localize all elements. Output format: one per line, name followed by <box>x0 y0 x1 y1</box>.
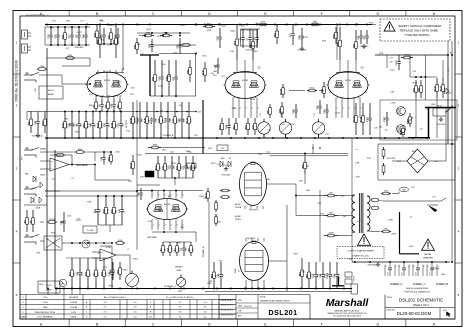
svg-text:ADAPT: ADAPT <box>48 93 55 96</box>
svg-text:R103: R103 <box>49 219 55 221</box>
column tick marks top <box>68 11 70 17</box>
svg-text:22n: 22n <box>162 64 165 66</box>
transistor TR2 <box>59 279 67 287</box>
wires right col to bus <box>415 98 417 138</box>
model cell DSL201 <box>257 295 259 319</box>
filter cap cluster rails <box>45 26 90 28</box>
resistor R35 <box>65 57 67 59</box>
footswitch jack FS1 <box>24 236 32 238</box>
capacitor C187 <box>386 112 388 118</box>
resistor R19 network <box>119 262 121 268</box>
svg-text:100n: 100n <box>39 284 44 286</box>
svg-text:PAGE 1 OF 2: PAGE 1 OF 2 <box>413 303 429 307</box>
svg-text:DATE: DATE <box>71 316 77 319</box>
svg-text:820R: 820R <box>40 174 45 176</box>
wire y58 left <box>47 57 90 59</box>
wire y243 comb E top <box>70 242 112 244</box>
comb B components <box>132 102 134 117</box>
wire right margin drop <box>451 41 453 262</box>
resistor small W4a <box>371 199 372 201</box>
resistor R18 R17 <box>115 242 117 244</box>
svg-text:4: 4 <box>252 108 253 110</box>
junction dots phase splitter <box>312 147 313 148</box>
capacitor C90 <box>151 39 153 45</box>
capacitor C19 <box>103 28 105 35</box>
svg-text:5: 5 <box>258 108 259 110</box>
svg-text:6: 6 <box>183 194 184 196</box>
svg-text:5: 5 <box>413 266 414 268</box>
svg-text:100n: 100n <box>162 149 167 151</box>
svg-text:47u: 47u <box>177 242 180 244</box>
resistor R83 <box>276 25 278 32</box>
capacitor C6 <box>78 27 80 35</box>
ground bus bottom second <box>205 291 352 293</box>
svg-text:CH2: CH2 <box>409 246 414 248</box>
svg-text:10K: 10K <box>294 24 298 26</box>
wire opamp to pot <box>129 255 131 274</box>
signal bus pair <box>145 153 348 155</box>
wire plate V8 <box>269 260 288 262</box>
safety warning box <box>380 19 450 41</box>
svg-text:MODEL: MODEL <box>260 297 266 299</box>
resistor W1 plate <box>324 195 328 197</box>
resistor R116 tall <box>207 188 209 192</box>
svg-text:OUTPUT: OUTPUT <box>126 119 128 128</box>
svg-text:R = (THROUGH PLATED): R = (THROUGH PLATED) <box>166 296 194 299</box>
dark ground blob <box>145 171 154 177</box>
resistor W12 <box>307 90 309 92</box>
resistor R36b <box>96 25 98 32</box>
svg-text:03/CA/99: 03/CA/99 <box>69 296 79 299</box>
resistor R31 <box>269 104 271 108</box>
svg-text:10K: 10K <box>217 221 221 223</box>
svg-text:3: 3 <box>165 194 166 196</box>
op-amp IC1A <box>100 249 116 261</box>
svg-text:ALL OTHER HOLES =: ALL OTHER HOLES = <box>104 296 127 299</box>
footswitch pad box <box>38 281 60 293</box>
zener ZD2 <box>383 163 385 166</box>
svg-text:2: 2 <box>159 194 160 196</box>
capacitor C70 box <box>187 163 196 168</box>
svg-text:I7: I7 <box>127 249 129 251</box>
connector header J1 <box>22 30 28 39</box>
svg-text:0.022: 0.022 <box>116 81 122 83</box>
screen supply bus right <box>352 261 450 263</box>
svg-text:SCREEN_D: SCREEN_D <box>390 284 403 286</box>
comb F power cathode <box>308 262 310 272</box>
column tick marks bottom <box>68 319 70 327</box>
svg-text:C107: C107 <box>367 116 369 122</box>
capacitor C20 <box>117 28 119 35</box>
V2 anode wires top <box>236 60 238 73</box>
V1 plate rail <box>96 72 124 74</box>
svg-text:100n: 100n <box>241 26 246 28</box>
capacitor C16 <box>50 27 52 35</box>
wire y196 across <box>45 195 137 197</box>
screen resistors R47 <box>301 258 303 270</box>
svg-text:220K: 220K <box>253 51 258 53</box>
svg-text:820R: 820R <box>412 82 417 84</box>
trim resistors VR12 <box>220 190 222 192</box>
resistor R90 <box>136 38 138 43</box>
svg-text:GROUND: GROUND <box>75 47 84 49</box>
wire V4 top pins rail <box>137 190 203 192</box>
resistors left col <box>26 210 28 218</box>
svg-text:50μ: 50μ <box>170 151 173 153</box>
clip diodes <box>220 161 223 167</box>
svg-text:C187: C187 <box>384 116 386 122</box>
svg-text:V5: V5 <box>229 158 231 160</box>
resistor R60 feedback <box>55 154 57 156</box>
svg-text:R118: R118 <box>165 117 167 123</box>
svg-text:VR72: VR72 <box>211 163 217 165</box>
svg-text:4: 4 <box>171 194 172 196</box>
send jack <box>24 149 32 151</box>
svg-text:VR44: VR44 <box>109 25 115 27</box>
svg-text:C41: C41 <box>60 220 63 225</box>
wire to CH2 <box>399 212 401 254</box>
svg-text:10K: 10K <box>230 51 234 53</box>
svg-text:75R: 75R <box>40 66 44 68</box>
transformer core <box>359 193 361 233</box>
svg-text:DSL201: DSL201 <box>268 308 297 317</box>
wire y44 under parts <box>97 43 118 45</box>
capacitor C34 <box>103 152 105 157</box>
resistor R66 screen feed <box>213 262 215 272</box>
svg-text:OUTPUT TRANSFORMER: OUTPUT TRANSFORMER <box>347 250 374 253</box>
svg-text:100n: 100n <box>186 151 191 153</box>
resistor R58 HT2 row <box>148 147 152 149</box>
svg-text:ADAPT: ADAPT <box>46 289 53 292</box>
vertical wire x352 <box>351 138 353 262</box>
input jack CH1 <box>24 74 32 76</box>
V3 anode wires top <box>339 60 341 73</box>
svg-text:R11B: R11B <box>130 163 132 169</box>
svg-text:3: 3 <box>109 96 110 98</box>
diode D17 <box>442 60 444 78</box>
potentiometer VR11 <box>176 277 185 286</box>
svg-text:TYPE AND RATING: TYPE AND RATING <box>405 33 430 37</box>
wire y45 mid <box>150 44 196 46</box>
screen cap group C94 <box>389 262 391 268</box>
box C-LOW <box>83 226 97 233</box>
svg-text:0.022: 0.022 <box>77 32 83 34</box>
cap cluster near V2 top <box>240 28 260 30</box>
svg-text:+: + <box>101 250 103 254</box>
svg-text:1475: 1475 <box>71 312 77 314</box>
svg-text:100n: 100n <box>213 65 218 67</box>
wire warning box to rail <box>447 41 449 55</box>
wire y96 bottom of comb T2 <box>150 95 196 97</box>
safety warning triangle <box>384 22 395 32</box>
svg-text:PRE-PRODUCTION: PRE-PRODUCTION <box>35 312 55 314</box>
capacitor C41 <box>63 212 65 221</box>
resistor R77 <box>258 24 260 26</box>
svg-text:MX-PC: MX-PC <box>48 90 55 92</box>
svg-text:470R: 470R <box>207 30 212 32</box>
svg-text:F: F <box>321 322 323 326</box>
svg-text:470K: 470K <box>108 208 110 213</box>
cap cluster box near V2 top <box>241 30 258 46</box>
drn date cells <box>235 295 237 319</box>
svg-text:1: 1 <box>153 225 154 227</box>
capacitor C10 <box>57 27 59 35</box>
comb D <box>162 242 164 246</box>
resistor R103 <box>47 221 49 223</box>
resistor W3 and GND link <box>381 193 383 195</box>
svg-text:0.022: 0.022 <box>146 29 152 31</box>
svg-text:3: 3 <box>165 225 166 227</box>
wires into revision table <box>47 289 49 295</box>
svg-text:1n: 1n <box>299 274 301 276</box>
screen rail A <box>27 111 196 113</box>
svg-text:10K: 10K <box>195 165 197 169</box>
svg-text:REPLACE ONLY WITH SAME: REPLACE ONLY WITH SAME <box>400 29 438 33</box>
model notes column <box>218 295 220 319</box>
svg-text:MX-PC: MX-PC <box>46 285 53 287</box>
svg-text:C 70: C 70 <box>190 166 194 168</box>
wire W2 feed <box>296 215 324 217</box>
svg-text:68K: 68K <box>441 274 445 276</box>
svg-text:ECO NUMBER: ECO NUMBER <box>38 317 53 319</box>
wire y191 to left jacks <box>45 190 137 192</box>
resistor R91 <box>415 80 417 86</box>
vertical wire x55 <box>54 150 56 289</box>
svg-text:R186: R186 <box>404 55 410 57</box>
svg-text:47K: 47K <box>160 165 162 169</box>
zener boxes right <box>345 272 352 277</box>
capacitor C42 <box>37 112 39 122</box>
capacitor C82 screen <box>220 262 222 274</box>
svg-text:LED: LED <box>98 272 100 277</box>
svg-text:C95: C95 <box>402 272 404 275</box>
svg-text:GND: GND <box>402 190 407 192</box>
svg-text:220K: 220K <box>388 220 393 222</box>
resistor W2 HT1 <box>324 215 328 217</box>
wire transformer to speaker jack <box>383 200 427 202</box>
svg-text:ECC83: ECC83 <box>345 80 351 82</box>
relay wire to BR1 <box>445 116 447 161</box>
svg-text:+: + <box>51 160 53 164</box>
resistor R12 <box>323 82 325 87</box>
svg-text:3: 3 <box>349 108 350 110</box>
svg-text:68K: 68K <box>183 118 185 122</box>
svg-text:W12: W12 <box>310 88 315 90</box>
bridge rectifier BR1 <box>407 149 428 173</box>
resistor 75R at input <box>37 68 39 70</box>
svg-text:3: 3 <box>246 108 247 110</box>
resistor R29 <box>281 102 283 107</box>
jack pad box MX-PC ADAPT <box>39 86 63 99</box>
svg-text:R10A: R10A <box>279 89 282 95</box>
svg-text:MWLB: MWLB <box>137 117 139 124</box>
svg-text:100K: 100K <box>137 154 142 156</box>
svg-text:SCREEN_D: SCREEN_D <box>164 286 176 288</box>
resistor R129 <box>442 78 444 85</box>
mosfet Q1 <box>397 107 406 116</box>
svg-text:C96: C96 <box>35 88 37 91</box>
transistor TR1 <box>82 240 90 248</box>
svg-text:1: 1 <box>153 194 154 196</box>
svg-text:R107: R107 <box>42 120 44 126</box>
svg-text:10K: 10K <box>137 44 141 46</box>
warning triangle transformer <box>358 234 371 245</box>
svg-text:1M: 1M <box>141 119 143 122</box>
capacitor C36 <box>295 104 297 110</box>
power supply enclosure <box>378 144 455 180</box>
wire segment W88 <box>181 44 183 46</box>
capacitor C64b <box>140 188 142 193</box>
wire x123 drop <box>122 25 124 71</box>
resistor R89 <box>160 35 163 37</box>
svg-text:MODEL NOTE 4: MODEL NOTE 4 <box>221 314 233 316</box>
bold supply traces <box>425 107 456 109</box>
mosfet Q2 <box>397 125 406 134</box>
V1 pin components bottom <box>95 96 97 100</box>
return jack <box>24 188 32 190</box>
svg-text:WASHER: WASHER <box>423 257 433 260</box>
svg-text:SEND: SEND <box>40 149 46 151</box>
svg-text:33K: 33K <box>75 131 79 133</box>
svg-text:C17: C17 <box>448 68 450 71</box>
svg-text:R129: R129 <box>440 85 442 91</box>
svg-text:C-LOW: C-LOW <box>87 230 94 232</box>
wire y53 to V2 <box>159 53 196 55</box>
output transformer T1 primary <box>352 195 355 202</box>
potentiometer VR4 <box>279 122 291 134</box>
wire input to grid <box>39 74 62 76</box>
svg-text:2: 2 <box>240 108 241 110</box>
svg-text:MODEL NOTE 3: MODEL NOTE 3 <box>221 310 233 312</box>
wire HT3 drop to power supply <box>447 55 449 144</box>
bold trace near R90 <box>140 54 159 56</box>
wire pots to bus <box>263 134 265 138</box>
svg-text:1n: 1n <box>410 217 412 219</box>
svg-text:ECC83: ECC83 <box>164 204 170 206</box>
svg-text:R125: R125 <box>434 85 436 91</box>
capacitor C78 <box>219 28 221 37</box>
potentiometer VR10 <box>126 274 139 287</box>
svg-text:47u: 47u <box>385 130 388 132</box>
svg-text:1: 1 <box>97 96 98 98</box>
svg-text:MODEL NOTE 2: MODEL NOTE 2 <box>221 305 233 307</box>
capacitor C17 <box>71 27 73 35</box>
svg-text:EL84: EL84 <box>235 269 237 273</box>
svg-text:2: 2 <box>159 225 160 227</box>
V2 pin wires bottom <box>232 98 234 119</box>
svg-text:VR64: VR64 <box>199 196 205 198</box>
output transformer label box <box>337 247 384 259</box>
wire return <box>45 190 60 192</box>
svg-text:R123: R123 <box>219 124 221 130</box>
zener pair below <box>33 176 36 182</box>
svg-text:C96: C96 <box>416 272 418 275</box>
capacitor C58 with ground <box>301 28 303 36</box>
wire y258 comb E join <box>70 257 112 259</box>
triode V3 ECC83 <box>328 72 368 99</box>
svg-text:1698: 1698 <box>43 307 49 309</box>
vertical wire x137 <box>136 100 138 250</box>
svg-text:DSL201 SCHEMATIC: DSL201 SCHEMATIC <box>399 298 444 303</box>
svg-text:SEE DL-6000EB.DGM: SEE DL-6000EB.DGM <box>406 288 428 290</box>
resistor R186b <box>402 126 404 128</box>
vertical wire x287 <box>286 205 288 292</box>
svg-text:5: 5 <box>399 266 400 268</box>
vertical wire x209 <box>208 202 210 289</box>
resistor R81 470R <box>203 26 206 28</box>
svg-text:VR75: VR75 <box>303 37 309 39</box>
svg-text:1710: 1710 <box>43 297 49 299</box>
svg-text:A200K: A200K <box>235 215 241 218</box>
zener ZD1 <box>383 147 385 150</box>
resistor R36 <box>64 27 66 33</box>
svg-text:R20B: R20B <box>130 118 132 124</box>
svg-text:22n: 22n <box>258 154 261 156</box>
svg-text:T12: T12 <box>260 113 262 116</box>
svg-text:METAL: METAL <box>424 253 432 256</box>
svg-text:R114: R114 <box>96 122 99 128</box>
wire y77 right col <box>410 76 437 78</box>
comb E led logic <box>71 258 73 270</box>
capacitor C66 <box>85 27 87 35</box>
wire send <box>40 151 55 153</box>
resistor R11B left <box>132 155 134 162</box>
comb A components <box>64 112 66 122</box>
svg-text:R186: R186 <box>400 129 402 135</box>
svg-text:47K: 47K <box>193 247 195 251</box>
svg-text:ScansByArtekMedia · 2: ScansByArtekMedia · 2 <box>26 13 50 16</box>
svg-text:ACR: ACR <box>201 70 204 75</box>
svg-text:CAM: CAM <box>21 316 26 319</box>
svg-text:VR10: VR10 <box>122 270 128 272</box>
ground bus bottom <box>55 288 352 290</box>
opamp wires <box>40 160 50 162</box>
resistor R93 <box>189 60 191 68</box>
svg-text:FIL2/FIL1: FIL2/FIL1 <box>249 210 259 212</box>
svg-text:DRAKE 851-026: DRAKE 851-026 <box>352 255 369 258</box>
potentiometer VR3 <box>258 122 270 134</box>
V3 plate rail <box>336 72 360 74</box>
svg-text:SCREEN_C: SCREEN_C <box>413 284 426 286</box>
relay RL19 <box>433 108 446 116</box>
wire V3 plate to HT <box>336 25 338 61</box>
svg-text:ECC83: ECC83 <box>104 80 110 82</box>
svg-text:−: − <box>101 256 103 260</box>
V8 pin stubs top <box>245 238 247 242</box>
svg-text:1M: 1M <box>436 268 439 270</box>
svg-text:100K: 100K <box>35 207 40 209</box>
zener D5 D6 <box>31 197 34 203</box>
svg-text:470R: 470R <box>391 233 396 235</box>
svg-text:5: 5 <box>385 266 386 268</box>
resistor R84 <box>335 27 337 32</box>
triode V1 ECC83 <box>87 72 127 97</box>
svg-text:R113: R113 <box>62 122 64 128</box>
svg-text:R118: R118 <box>111 122 113 128</box>
triode V4 ECC83 <box>148 199 187 220</box>
svg-text:4: 4 <box>355 108 356 110</box>
svg-text:R187: R187 <box>353 116 355 122</box>
svg-text:2/10/99: 2/10/99 <box>70 302 78 304</box>
svg-text:ECC83: ECC83 <box>242 80 248 82</box>
capacitor C98 <box>179 38 181 45</box>
wire y225 under comb G <box>98 224 122 226</box>
svg-text:DWG.No. DL2060-02.DGM: DWG.No. DL2060-02.DGM <box>14 60 18 101</box>
wire comb D top <box>163 241 191 243</box>
wire y200 return <box>24 204 47 206</box>
power tube V8 EL84 lower <box>240 242 269 281</box>
wire row fs <box>40 240 44 242</box>
